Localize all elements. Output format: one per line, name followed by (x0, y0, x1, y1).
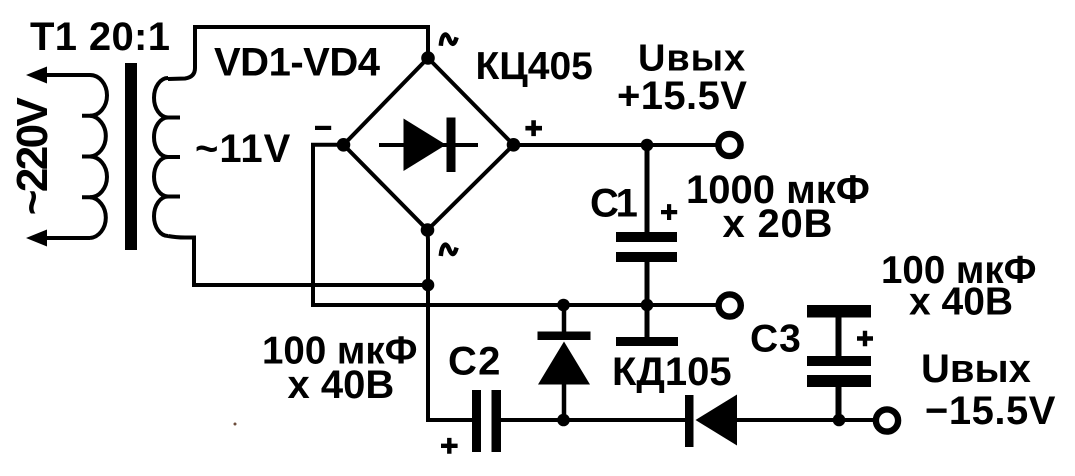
capacitor C1 plate top (616, 232, 677, 242)
plus mark C1 (661, 204, 677, 220)
vertical diode triangle (538, 342, 590, 385)
vertical diode cathode bar (538, 332, 591, 341)
capacitor C3 plate top (807, 356, 871, 366)
node dot bridge bottom (421, 223, 435, 237)
capacitor C3 stem lower (836, 387, 842, 420)
capacitor C2 plate right (492, 390, 502, 452)
wire bridge right to +out terminal (514, 143, 719, 147)
svg-text:Uвых: Uвых (921, 347, 1031, 391)
tilde mark bottom node (441, 245, 457, 256)
plus mark bridge right (525, 120, 542, 136)
output terminal 0V (719, 294, 741, 316)
svg-text:х 40В: х 40В (909, 281, 1013, 324)
ground stub below C1 (645, 305, 650, 337)
capacitor C3 stem upper (836, 318, 842, 357)
svg-text:−15.5V: −15.5V (925, 389, 1056, 433)
svg-text:~220V: ~220V (8, 97, 57, 216)
primary winding (90, 75, 107, 238)
wire primary top lead (44, 73, 90, 77)
primary cusp ticks (82, 116, 91, 198)
horizontal diode cathode bar (685, 395, 694, 447)
node dot 0V rail at C1 (641, 299, 654, 312)
output terminal -15.5V (876, 409, 898, 431)
node dot bridge right (507, 138, 521, 152)
bridge inner diode cathode bar (447, 118, 456, 173)
secondary cusp ticks (167, 118, 180, 197)
capacitor C3 top bar (807, 305, 871, 318)
svg-text:КЦ405: КЦ405 (476, 45, 593, 88)
ground bar below C1 (616, 337, 678, 346)
tilde mark top node (441, 35, 457, 46)
svg-text:КД105: КД105 (612, 350, 732, 394)
transformer core (125, 63, 137, 250)
bridge inner diode line (379, 143, 478, 147)
node dot bridge left (337, 138, 351, 152)
minus mark bridge left (315, 126, 331, 130)
wire secondary bottom jog (168, 236, 428, 285)
arrow primary top (26, 67, 47, 84)
vertical diode stem bottom (562, 384, 567, 420)
vertical diode stem top (562, 305, 567, 332)
horizontal diode triangle (696, 395, 738, 446)
svg-text:C1: C1 (590, 182, 638, 226)
wire secondary top to bridge top (168, 27, 428, 79)
wire left vertex to 0V rail (313, 145, 718, 305)
artifact dot (234, 423, 237, 426)
capacitor C1 stem bottom (645, 262, 650, 305)
capacitor C3 plate bottom (807, 375, 871, 387)
bridge rectifier VD1-VD4 diamond (344, 58, 514, 230)
svg-text:х 40В: х 40В (288, 363, 395, 407)
node dot top rail (641, 139, 654, 152)
plus mark C2 (441, 438, 458, 454)
svg-text:VD1-VD4: VD1-VD4 (214, 41, 381, 85)
wire diode to -out terminal (737, 418, 876, 422)
capacitor C1 stem top (645, 145, 650, 232)
svg-text:C2: C2 (448, 339, 502, 383)
wire bridge bottom node down (428, 230, 473, 420)
capacitor C1 plate bottom (616, 252, 677, 262)
svg-text:T1 20:1: T1 20:1 (30, 15, 170, 59)
node dot bottom rail at C3 (833, 414, 846, 427)
wire C2 to diode junction (501, 418, 686, 422)
output terminal +15.5V (718, 134, 740, 156)
wire primary bottom lead (44, 236, 90, 240)
bridge inner diode triangle (404, 119, 447, 172)
svg-text:C3: C3 (750, 318, 802, 361)
svg-text:~11V: ~11V (195, 127, 291, 171)
svg-text:х 20В: х 20В (723, 202, 834, 246)
node dot 0V rail at diode (557, 299, 570, 312)
plus mark C3 (857, 331, 873, 346)
capacitor C2 plate left (472, 390, 481, 452)
secondary winding (154, 78, 168, 236)
node dot bottom rail at vertical diode (557, 414, 570, 427)
svg-text:+15.5V: +15.5V (617, 74, 747, 118)
node dot bridge top (421, 51, 435, 65)
node dot transformer bottom junction (422, 279, 435, 292)
arrow primary bottom (26, 230, 47, 247)
